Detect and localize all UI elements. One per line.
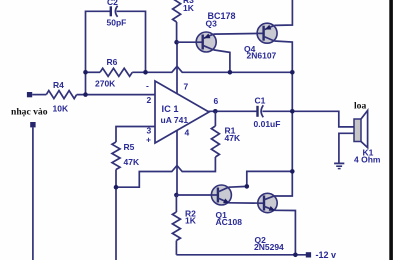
- transistor Q2 2N5294: [254, 193, 284, 252]
- svg-text:2: 2: [147, 95, 152, 105]
- svg-text:uA 741: uA 741: [161, 115, 189, 125]
- svg-text:0.01uF: 0.01uF: [254, 119, 281, 129]
- ground: [334, 163, 344, 168]
- svg-text:R4: R4: [53, 80, 64, 90]
- wire Q3 collector down to rail: [214, 50, 230, 72]
- svg-text:nhạc vào: nhạc vào: [11, 107, 48, 118]
- node Q1 collector: [245, 184, 250, 189]
- wire output to R1: [214, 111, 216, 126]
- resistor R4: [32, 80, 76, 114]
- svg-text:C2: C2: [107, 0, 118, 7]
- node rail right: [290, 70, 295, 75]
- border bar right: [389, 0, 393, 260]
- node output vertical / Q1 collector: [290, 169, 295, 174]
- wire Q3 base: [177, 41, 203, 43]
- wire Q3 emitter to Q4 base: [214, 32, 264, 35]
- node R6 right / C2: [143, 70, 148, 75]
- resistor R1: [211, 126, 241, 158]
- transistor Q3 BC178: [196, 11, 236, 52]
- op-amp U1 uA741: [146, 81, 219, 145]
- node output pin6: [213, 109, 218, 114]
- wire pin3 input: [116, 127, 155, 143]
- svg-text:loa: loa: [354, 101, 366, 112]
- svg-text:10K: 10K: [53, 104, 69, 114]
- node pin4 / Q1 base / R2: [174, 193, 179, 198]
- resistor R2: [172, 195, 196, 255]
- node R5 bottom: [114, 185, 119, 190]
- transistor Q1 AC108: [211, 185, 242, 227]
- wire pin4 down: [176, 130, 178, 195]
- node R4 / feedback / pin2: [83, 92, 88, 97]
- svg-text:6: 6: [214, 96, 219, 106]
- node R6 left / C2: [83, 70, 88, 75]
- wire speaker return: [339, 133, 354, 162]
- wire input ground down: [32, 127, 34, 260]
- node Q2 emitter / rail: [293, 253, 298, 258]
- terminal input: [27, 92, 32, 97]
- wire C1 to speaker: [262, 111, 354, 127]
- svg-text:IC 1: IC 1: [162, 104, 179, 114]
- wire Q1 emitter to Q2 base: [229, 202, 264, 204]
- svg-text:7: 7: [184, 82, 189, 92]
- wire Q2 emitter down: [274, 210, 295, 255]
- terminal input ground: [30, 122, 35, 127]
- svg-text:47K: 47K: [225, 133, 241, 143]
- svg-text:1K: 1K: [185, 216, 197, 226]
- capacitor C2: [86, 0, 146, 95]
- wire R5 node down to edge: [115, 187, 117, 260]
- svg-text:Q3: Q3: [206, 19, 218, 29]
- wire R5 bottom: [115, 170, 117, 188]
- wire Q4 emitter to top: [274, 0, 292, 25]
- svg-text:AC108: AC108: [216, 217, 243, 227]
- wire R5 node to R1 bottom with hop: [116, 157, 215, 187]
- terminal -12v: [306, 252, 311, 257]
- svg-text:4 Ohm: 4 Ohm: [354, 155, 381, 165]
- svg-text:R5: R5: [124, 142, 135, 152]
- svg-text:270K: 270K: [95, 79, 116, 89]
- node Q3 collector / rail: [228, 70, 233, 75]
- capacitor C1: [254, 96, 281, 130]
- wire feedback rail: [86, 71, 101, 73]
- transistor Q4 2N6107: [244, 23, 277, 60]
- resistor R6: [95, 57, 132, 89]
- svg-text:-12 v: -12 v: [316, 250, 337, 260]
- node R3 / Q3 base: [174, 40, 179, 45]
- wire R4 to pin2: [77, 94, 155, 96]
- wire bottom rail: [176, 254, 306, 256]
- svg-text:2N6107: 2N6107: [247, 51, 277, 61]
- svg-text:47K: 47K: [124, 157, 140, 167]
- svg-text:4: 4: [185, 128, 190, 138]
- wire op-amp output: [207, 110, 257, 112]
- wire pin7 up: [176, 42, 178, 94]
- resistor R5: [112, 142, 140, 170]
- svg-text:+: +: [146, 135, 151, 145]
- resistor R3: [173, 0, 195, 42]
- wire Q4 collector down long vertical: [274, 41, 292, 196]
- svg-text:1K: 1K: [183, 3, 195, 13]
- wire Q1 base: [176, 194, 218, 196]
- svg-text:2N5294: 2N5294: [254, 242, 284, 252]
- svg-text:C1: C1: [255, 96, 266, 106]
- wire Q1 collector to output vertical: [229, 171, 293, 187]
- node C1 / output vertical: [290, 109, 295, 114]
- svg-text:50pF: 50pF: [107, 18, 127, 28]
- speaker K1: [354, 101, 381, 165]
- svg-text:R6: R6: [107, 57, 118, 67]
- wire rail R6 right to Q3/Q4 collectors with hop: [132, 66, 292, 72]
- svg-text:-: -: [146, 81, 149, 91]
